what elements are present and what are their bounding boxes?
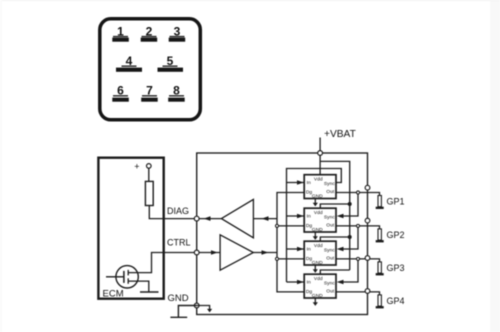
wire terminal to resistor bbox=[148, 168, 150, 181]
svg-text:Out: Out bbox=[326, 189, 335, 195]
pin 6 bbox=[112, 84, 129, 102]
op-amp U3 CTRL buffer bbox=[220, 235, 253, 270]
svg-text:Vdd: Vdd bbox=[314, 176, 323, 182]
junction sync1 bbox=[356, 191, 359, 194]
wire Out4 to GP4 bbox=[336, 292, 380, 295]
IC U4 bbox=[304, 175, 336, 200]
ECM box bbox=[98, 158, 163, 299]
wire CTRL buffer output bbox=[253, 252, 277, 254]
transistor Q1 bbox=[106, 266, 149, 292]
IC U6 bbox=[304, 241, 336, 266]
wire DIAG to pin bbox=[197, 218, 222, 220]
module box bbox=[197, 153, 368, 315]
svg-text:Out: Out bbox=[326, 288, 335, 294]
wire sync chain 1-2 bbox=[341, 193, 358, 217]
svg-text:Sync: Sync bbox=[324, 280, 335, 286]
wire DIAG from resistor to module bbox=[149, 206, 196, 219]
battery + terminal bbox=[134, 161, 151, 171]
junction sync3 bbox=[356, 257, 359, 260]
wire Dg bus bbox=[277, 193, 304, 292]
ground arrow U5 bbox=[314, 232, 316, 237]
connector J1 outline bbox=[100, 19, 201, 120]
pin 4 bbox=[116, 54, 142, 72]
svg-text:In: In bbox=[307, 247, 311, 253]
IC U5 bbox=[304, 208, 336, 233]
glow plug GP2 bbox=[376, 229, 405, 243]
wire Out1 to GP1 bbox=[336, 193, 380, 196]
node GP2 pin bbox=[365, 218, 370, 223]
wire +VBAT bbox=[319, 138, 321, 175]
glow plug GP3 bbox=[376, 262, 405, 276]
pin 7 bbox=[141, 84, 158, 102]
svg-text:DIAG: DIAG bbox=[167, 206, 189, 216]
resistor R1 bbox=[145, 181, 153, 205]
node CTRL pin bbox=[194, 250, 199, 255]
svg-text:GP2: GP2 bbox=[387, 230, 405, 240]
junction Dg3 bbox=[275, 257, 278, 260]
wire sync chain 2-3 bbox=[341, 226, 358, 249]
ground in ECM bbox=[140, 291, 159, 293]
svg-text:Sync: Sync bbox=[324, 181, 335, 187]
svg-text:Vdd: Vdd bbox=[314, 276, 323, 282]
pin 2 bbox=[141, 24, 158, 41]
glow plug GP1 bbox=[376, 196, 405, 210]
wire DIAG buffer input bbox=[253, 218, 277, 220]
wire In3 bbox=[287, 248, 304, 250]
junction Vdd IC2 bbox=[348, 202, 352, 206]
svg-text:Out: Out bbox=[326, 222, 335, 228]
junction sync2 bbox=[356, 224, 359, 227]
wire sync chain 3-4 bbox=[341, 259, 358, 282]
svg-text:Vdd: Vdd bbox=[314, 243, 323, 249]
svg-text:CTRL: CTRL bbox=[167, 238, 191, 248]
pin 3 bbox=[169, 24, 186, 41]
node GND pin bbox=[194, 303, 199, 308]
svg-text:GND: GND bbox=[312, 293, 323, 299]
svg-text:In: In bbox=[307, 180, 311, 186]
svg-text:Sync: Sync bbox=[324, 247, 335, 253]
wire CTRL to buffer bbox=[197, 252, 220, 254]
ground arrow U4 bbox=[314, 199, 316, 204]
svg-text:GND: GND bbox=[312, 227, 323, 233]
wire Out2 to GP2 bbox=[336, 226, 380, 229]
wire GND external bbox=[170, 306, 196, 318]
IC U7 bbox=[304, 274, 336, 299]
svg-text:+: + bbox=[134, 161, 139, 171]
svg-text:GND: GND bbox=[168, 293, 189, 304]
svg-text:ECM: ECM bbox=[103, 289, 124, 300]
op-amp U2 DIAG buffer bbox=[221, 199, 253, 237]
wire In4 bbox=[287, 281, 304, 283]
junction Dg2 bbox=[275, 224, 278, 227]
ground arrow at GND pin bbox=[197, 306, 210, 310]
wire In bus bbox=[287, 169, 342, 283]
node GP3 pin bbox=[365, 256, 370, 261]
wire In2 bbox=[287, 215, 304, 217]
node GP1 pin bbox=[365, 185, 370, 190]
node GP4 pin bbox=[365, 289, 370, 294]
node +VBAT pin bbox=[318, 151, 323, 156]
pin 8 bbox=[168, 84, 185, 102]
svg-text:GP1: GP1 bbox=[387, 196, 405, 206]
svg-text:In: In bbox=[307, 214, 311, 220]
svg-text:GP3: GP3 bbox=[387, 263, 405, 273]
svg-text:Out: Out bbox=[326, 255, 335, 261]
wire CTRL from transistor to module bbox=[128, 253, 197, 273]
wire In1 bbox=[287, 182, 304, 184]
node DIAG pin bbox=[194, 216, 199, 221]
svg-text:In: In bbox=[307, 280, 311, 286]
svg-text:GP4: GP4 bbox=[387, 296, 405, 306]
svg-text:Sync: Sync bbox=[324, 214, 335, 220]
wire Vdd rail bbox=[320, 161, 350, 274]
glow plug GP4 bbox=[376, 295, 405, 309]
ground arrow U7 bbox=[314, 298, 316, 303]
ground arrow U6 bbox=[314, 265, 316, 270]
svg-text:+VBAT: +VBAT bbox=[324, 129, 356, 140]
svg-text:GND: GND bbox=[312, 260, 323, 266]
pin 5 bbox=[158, 54, 184, 72]
svg-text:GND: GND bbox=[312, 194, 323, 200]
svg-text:Vdd: Vdd bbox=[314, 210, 323, 216]
wire Out3 to GP3 bbox=[336, 259, 380, 262]
pin 1 bbox=[112, 24, 129, 41]
junction Vdd IC3 bbox=[348, 235, 352, 239]
